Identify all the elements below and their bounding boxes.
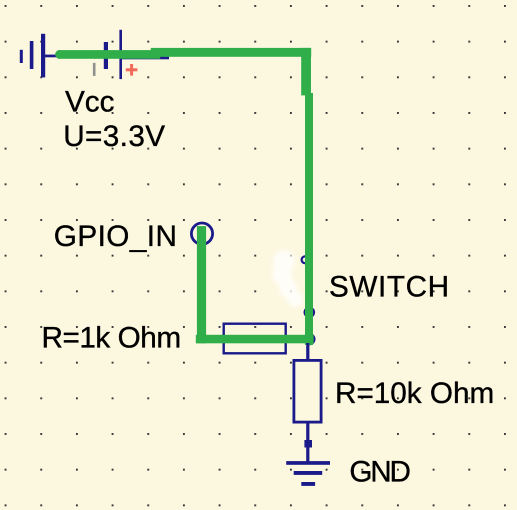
svg-text:GPIO_IN: GPIO_IN: [54, 220, 178, 253]
svg-text:U=3.3V: U=3.3V: [63, 120, 165, 153]
svg-text:R=10k Ohm: R=10k Ohm: [335, 377, 494, 410]
svg-text:GND: GND: [349, 456, 410, 489]
svg-text:R=1k Ohm: R=1k Ohm: [42, 322, 181, 355]
svg-text:Vcc: Vcc: [65, 86, 115, 119]
svg-text:SWITCH: SWITCH: [329, 271, 450, 304]
